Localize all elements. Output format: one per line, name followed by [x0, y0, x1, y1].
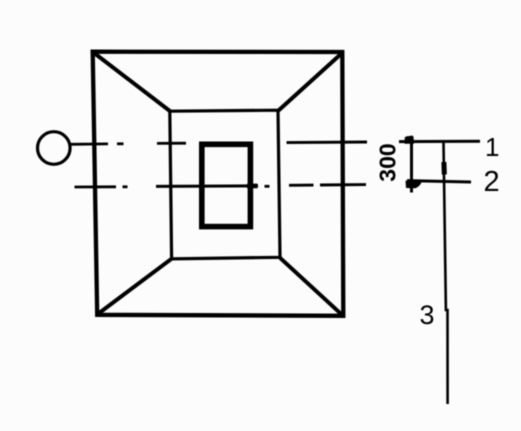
svg-text:1: 1	[485, 132, 499, 162]
centerline A solid segment through left edge	[71, 142, 109, 145]
leader to label 1	[399, 140, 480, 143]
svg-text:2: 2	[484, 166, 500, 198]
centerline B right dash 1	[289, 184, 314, 187]
leader line down to label 3	[444, 142, 448, 404]
circle	[38, 132, 71, 165]
centerline A dot	[117, 142, 124, 145]
svg-text:3: 3	[420, 300, 435, 330]
svg-text:300: 300	[375, 143, 401, 181]
centerline B right dash 2	[320, 183, 366, 186]
diagonal top-right	[279, 54, 342, 111]
centerline B dot right	[265, 185, 270, 188]
leader to label 2	[407, 181, 471, 182]
centerline B long segment through inner rectangle	[156, 184, 258, 188]
dimension arrow bottom	[406, 181, 423, 189]
centerline B ink blob at segment end	[247, 184, 258, 189]
diagonal bottom-left	[99, 259, 172, 314]
inner rectangle	[202, 144, 251, 226]
centerline A right segment	[287, 141, 368, 145]
centerline B dot	[123, 185, 128, 188]
outer square	[93, 52, 344, 316]
middle rectangle	[170, 110, 280, 259]
diagonal bottom-right	[280, 258, 342, 315]
leader blob	[441, 162, 446, 175]
dimension line vertical	[410, 136, 413, 193]
centerline B solid segment through left edge	[75, 185, 117, 188]
dimension arrow top	[405, 136, 415, 144]
diagonal top-left	[94, 53, 171, 112]
centerline A dash through middle-rect edge	[157, 142, 186, 145]
